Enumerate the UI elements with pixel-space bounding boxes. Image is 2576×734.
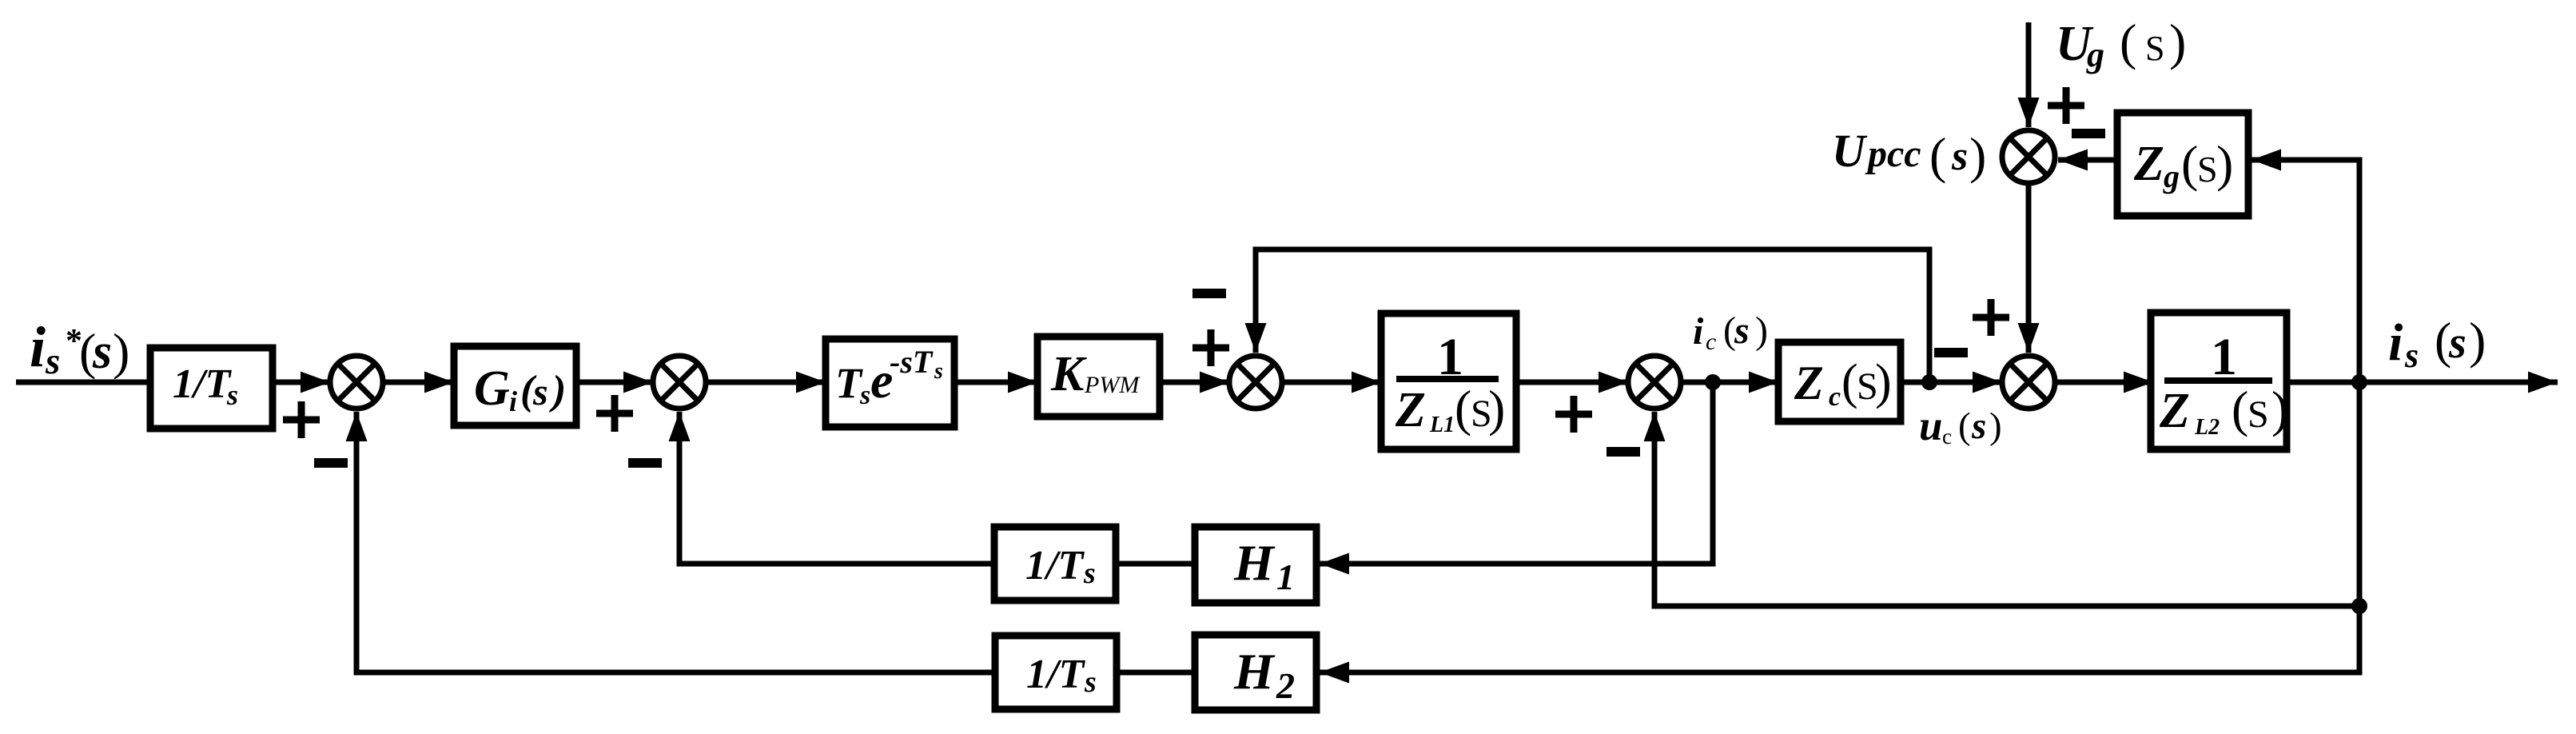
svg-text:(: ( <box>2232 381 2248 437</box>
svg-text:G: G <box>474 361 510 416</box>
svg-text:(: ( <box>1841 355 1858 409</box>
svg-text:s: s <box>226 379 238 411</box>
svg-text:u: u <box>1919 403 1942 449</box>
svg-text:c: c <box>1942 425 1952 449</box>
svg-text:pcc: pcc <box>1865 133 1921 175</box>
svg-text:(: ( <box>1455 380 1471 437</box>
svg-text:Z: Z <box>1395 383 1426 437</box>
svg-text:): ) <box>1875 355 1892 409</box>
svg-text:c: c <box>1706 329 1716 355</box>
svg-text:s: s <box>1971 405 1986 447</box>
svg-text:1: 1 <box>1276 556 1295 597</box>
svg-text:s: s <box>45 341 60 382</box>
svg-text:(: ( <box>1958 405 1971 447</box>
svg-text:s: s <box>859 381 870 410</box>
svg-text:i: i <box>2388 313 2403 372</box>
svg-text:): ) <box>2469 312 2486 369</box>
svg-text:H: H <box>1233 534 1276 591</box>
svg-text:): ) <box>1488 380 1505 437</box>
svg-text:s: s <box>1734 309 1750 352</box>
svg-text:i: i <box>509 385 517 417</box>
svg-text:s: s <box>2448 318 2467 368</box>
svg-text:s: s <box>2404 336 2419 375</box>
svg-text:-sT: -sT <box>890 344 934 380</box>
svg-text:Z: Z <box>2133 137 2164 191</box>
svg-text:): ) <box>2271 381 2288 437</box>
svg-text:U: U <box>1832 125 1868 177</box>
svg-text:): ) <box>2216 135 2233 192</box>
svg-text:g: g <box>2086 35 2104 74</box>
svg-text:Z: Z <box>1794 357 1824 409</box>
svg-text:S: S <box>2197 149 2218 189</box>
svg-text:): ) <box>113 323 129 380</box>
svg-text:(: ( <box>1929 127 1946 184</box>
svg-text:): ) <box>1969 127 1986 184</box>
svg-text:s: s <box>1083 556 1096 590</box>
svg-text:c: c <box>1829 382 1841 412</box>
svg-text:1: 1 <box>1437 328 1463 386</box>
svg-text:K: K <box>1050 347 1087 401</box>
svg-text:): ) <box>1755 309 1768 352</box>
svg-text:g: g <box>2163 158 2180 194</box>
svg-text:1/T: 1/T <box>1025 543 1085 588</box>
svg-text:s: s <box>934 359 943 384</box>
svg-text:s: s <box>1084 665 1097 699</box>
svg-text:s: s <box>1951 134 1968 179</box>
svg-text:): ) <box>549 368 566 413</box>
svg-text:H: H <box>1233 643 1276 700</box>
svg-text:i: i <box>30 315 46 379</box>
svg-text:1/T: 1/T <box>1026 652 1085 697</box>
svg-text:2: 2 <box>1276 665 1295 706</box>
svg-text:1/T: 1/T <box>173 361 232 407</box>
svg-text:T: T <box>835 359 863 407</box>
svg-text:Z: Z <box>2159 384 2190 438</box>
svg-text:L1: L1 <box>1429 413 1455 437</box>
svg-text:s: s <box>532 371 548 413</box>
svg-text:S: S <box>2145 29 2164 68</box>
svg-text:PWM: PWM <box>1084 372 1141 398</box>
svg-text:1: 1 <box>2211 328 2237 386</box>
svg-text:(: ( <box>2181 135 2198 192</box>
svg-text:(: ( <box>2120 14 2136 70</box>
svg-text:S: S <box>2248 393 2269 436</box>
svg-text:): ) <box>1989 405 2002 447</box>
svg-text:s: s <box>92 325 112 379</box>
svg-text:i: i <box>1693 310 1704 353</box>
svg-text:L2: L2 <box>2194 415 2220 440</box>
svg-text:): ) <box>2169 14 2186 70</box>
